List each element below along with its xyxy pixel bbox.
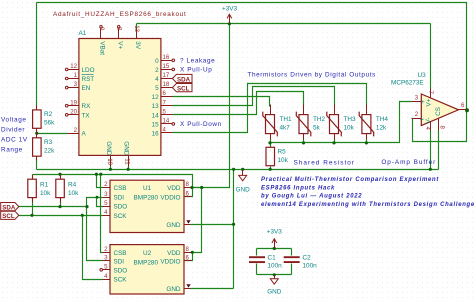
svg-text:8: 8 xyxy=(438,126,445,130)
svg-text:CS: CS xyxy=(435,107,442,116)
svg-text:TX: TX xyxy=(82,112,91,119)
svg-text:V+: V+ xyxy=(116,41,123,49)
svg-text:SDA: SDA xyxy=(177,76,191,83)
svg-text:SCK: SCK xyxy=(114,213,128,220)
svg-text:Adafruit_HUZZAH_ESP8266_breako: Adafruit_HUZZAH_ESP8266_breakout xyxy=(53,11,187,18)
A1 pin LDO 12 xyxy=(65,63,94,74)
svg-text:16: 16 xyxy=(163,54,170,61)
A1 pin 0 16 xyxy=(155,54,174,65)
svg-text:ESP8266 Inputs Hack: ESP8266 Inputs Hack xyxy=(261,185,335,191)
op-amp U3 MCP6273E xyxy=(391,72,459,126)
wire R3 bottom to GND rail xyxy=(36,159,38,170)
svg-text:TH4: TH4 xyxy=(376,116,389,123)
wire output-net top xyxy=(37,3,467,142)
svg-text:VDD: VDD xyxy=(167,185,181,192)
wire pin12 to TH4 xyxy=(173,84,367,133)
svg-text:? Leakage: ? Leakage xyxy=(180,58,215,65)
U3 pin 6 out xyxy=(459,102,467,110)
wire R1 bottom to SCL xyxy=(32,198,34,216)
wire C2 stubs xyxy=(291,249,293,256)
svg-text:VDDIO: VDDIO xyxy=(160,259,180,266)
svg-text:3V: 3V xyxy=(134,41,141,50)
wire 3V3 feed drop xyxy=(193,24,230,188)
svg-text:16: 16 xyxy=(152,131,160,138)
svg-text:Range: Range xyxy=(1,147,23,154)
svg-text:BMP280: BMP280 xyxy=(134,195,159,202)
svg-text:TH1: TH1 xyxy=(280,116,293,123)
svg-text:56k: 56k xyxy=(44,119,55,126)
wire 3V3 top rail xyxy=(137,23,431,25)
junction GND rail riser xyxy=(232,168,235,171)
U1 pin SDI 3 xyxy=(103,191,125,202)
U3 pin 7 V+ xyxy=(427,89,434,99)
U3 pin 8 CS xyxy=(438,119,445,131)
junction GND rail symbol xyxy=(241,168,244,171)
junction thermistor rail TH1 xyxy=(268,141,271,144)
note title block xyxy=(261,177,474,208)
svg-text:GND: GND xyxy=(267,289,282,296)
A1 pin GND 10 xyxy=(105,141,113,166)
power GND mid xyxy=(236,170,251,194)
svg-text:10k: 10k xyxy=(278,157,289,164)
svg-text:100n: 100n xyxy=(303,262,318,269)
wire GND riser xyxy=(233,170,235,289)
wire R1 top stub xyxy=(32,175,34,180)
svg-text:5: 5 xyxy=(155,85,159,92)
svg-text:12k: 12k xyxy=(376,125,387,132)
svg-text:20: 20 xyxy=(70,108,77,115)
svg-text:X Pull-Up: X Pull-Up xyxy=(180,67,212,74)
wire R5 top stub xyxy=(270,143,272,148)
svg-text:SDA: SDA xyxy=(2,204,16,211)
svg-text:17: 17 xyxy=(163,72,170,79)
junction SCL bus R1 xyxy=(30,214,33,217)
svg-text:19: 19 xyxy=(70,99,77,106)
ic A1 body xyxy=(53,11,187,155)
wire 3V3 lower rail xyxy=(33,175,193,188)
A1 pin TX 20 xyxy=(65,108,90,119)
wire U2 GND to riser xyxy=(191,288,234,290)
svg-text:R1: R1 xyxy=(40,182,49,189)
junction U1 SDI/SDO node xyxy=(96,196,99,199)
svg-text:12: 12 xyxy=(70,63,77,70)
svg-text:18: 18 xyxy=(163,81,170,88)
A1 pin RST 1 xyxy=(65,72,94,83)
wire R5 bottom stub xyxy=(270,167,272,170)
svg-text:LDO: LDO xyxy=(82,67,95,74)
svg-text:GND: GND xyxy=(123,141,130,156)
svg-text:VBat: VBat xyxy=(99,41,106,55)
wire pin13 up xyxy=(136,24,138,30)
svg-text:GND: GND xyxy=(105,141,112,156)
thermistor TH4 12k xyxy=(359,105,388,140)
svg-text:ADC 1V: ADC 1V xyxy=(1,137,28,144)
wire opamp V+ drop xyxy=(430,24,432,89)
svg-text:by Gough Lui — August 2022: by Gough Lui — August 2022 xyxy=(261,194,362,200)
ic U1 body xyxy=(110,180,184,232)
svg-text:5k: 5k xyxy=(313,125,321,132)
resistor R2 56k xyxy=(33,106,56,134)
svg-text:SDO: SDO xyxy=(114,204,128,211)
wire pin13 to TH3 xyxy=(173,87,335,107)
junction cap rail GND xyxy=(273,273,276,276)
junction GND rail op-amp V- xyxy=(429,168,432,171)
A1 pin 16 4 xyxy=(152,127,173,138)
svg-text:RST: RST xyxy=(82,76,95,83)
junction GND rail pin10 xyxy=(109,168,112,171)
svg-text:TH2: TH2 xyxy=(313,116,326,123)
U1 pin VDD 8 xyxy=(167,181,191,192)
U2 pin VDD 8 xyxy=(167,246,191,257)
capacitor C2 100n xyxy=(284,254,317,269)
svg-text:C2: C2 xyxy=(303,254,312,261)
junction GND rail R5 xyxy=(269,168,272,171)
svg-text:4k7: 4k7 xyxy=(280,125,291,132)
wire TH2 bottom stub xyxy=(303,139,305,143)
junction GND rail pin11 xyxy=(127,168,130,171)
resistor R3 22k xyxy=(33,134,56,161)
junction thermistor rail TH4 xyxy=(365,141,368,144)
svg-text:R5: R5 xyxy=(278,149,287,156)
svg-text:BMP280: BMP280 xyxy=(134,259,159,266)
svg-text:TH3: TH3 xyxy=(344,116,357,123)
svg-text:R2: R2 xyxy=(44,111,53,118)
svg-text:11: 11 xyxy=(124,158,131,165)
svg-text:Voltage: Voltage xyxy=(1,117,27,124)
A1 pin 12 6 xyxy=(152,90,173,101)
A1 pin RX 19 xyxy=(65,99,91,110)
A1 pin VBat 9 xyxy=(98,26,106,56)
A1 pin GND 11 xyxy=(123,141,131,166)
U1 pin CSB 2 xyxy=(103,181,127,192)
ic U2 body xyxy=(110,245,184,294)
junction thermistor rail TH2 xyxy=(302,141,305,144)
svg-text:C1: C1 xyxy=(268,254,277,261)
svg-text:VDD: VDD xyxy=(167,250,181,257)
svg-text:MCP6273E: MCP6273E xyxy=(391,80,424,87)
svg-text:9: 9 xyxy=(98,27,105,31)
wire U2 CSB drop xyxy=(101,175,103,253)
wire U2 VDD feed xyxy=(192,188,202,253)
svg-text:14: 14 xyxy=(163,118,170,125)
junction op-amp output node xyxy=(465,108,469,112)
wire A1 GND pin11 xyxy=(128,159,130,170)
svg-text:+3V3: +3V3 xyxy=(267,229,282,236)
wire TH3 bottom stub xyxy=(334,139,336,143)
wire C1 stubs xyxy=(256,249,258,256)
wire opamp V- to rail xyxy=(430,131,432,170)
svg-text:13: 13 xyxy=(152,103,160,110)
A1 pin 13 7 xyxy=(152,99,173,110)
wire pin16 to TH1 xyxy=(173,97,270,107)
svg-text:U2: U2 xyxy=(143,250,152,257)
junction U1 VDD node xyxy=(190,186,193,189)
global label SCL left xyxy=(1,211,19,220)
wire SDA bus xyxy=(19,206,87,208)
svg-text:Op-Amp Buffer: Op-Amp Buffer xyxy=(381,159,436,166)
junction 3V3 rail U2 CSB xyxy=(99,173,102,176)
svg-text:Shared Resistor: Shared Resistor xyxy=(294,160,356,167)
resistor R4 10k xyxy=(56,175,79,203)
junction 3V3 rail R4 xyxy=(58,173,61,176)
wire U1 CSB drop xyxy=(97,175,103,188)
U3 pin 2 - xyxy=(412,111,422,119)
junction 3V3 rail U1 CSB xyxy=(95,173,98,176)
svg-text:SCK: SCK xyxy=(114,277,128,284)
capacitor C1 100n xyxy=(249,254,282,269)
wire SDA to U1 SDI xyxy=(87,198,103,207)
svg-text:13: 13 xyxy=(133,25,140,32)
junction thermistor rail TH3 xyxy=(332,141,335,144)
junction U1 VDD feed node xyxy=(200,186,203,189)
svg-text:A1: A1 xyxy=(79,30,87,37)
power +3V3 caps xyxy=(267,229,282,249)
U2 pin SDO 5 xyxy=(100,263,127,274)
svg-text:10k: 10k xyxy=(40,190,51,197)
svg-text:VDDIO: VDDIO xyxy=(160,195,180,202)
resistor R5 10k shared xyxy=(266,147,289,165)
svg-text:2: 2 xyxy=(155,67,159,74)
svg-text:0: 0 xyxy=(155,58,159,65)
junction U1 GND riser xyxy=(232,223,235,226)
wire TH4 bottom stub xyxy=(366,139,368,143)
wire U2 VDDIO joint xyxy=(185,253,193,261)
U2 pin SCK 4 xyxy=(103,273,128,284)
thermistor TH3 10k xyxy=(327,105,356,140)
note voltage divider xyxy=(1,117,28,154)
U2 pin CSB 2 xyxy=(103,246,127,257)
svg-text:2: 2 xyxy=(415,111,419,118)
svg-text:4: 4 xyxy=(155,76,159,83)
junction divider mid node xyxy=(35,132,38,135)
svg-text:100n: 100n xyxy=(268,262,283,269)
U1 pin GND 1 xyxy=(166,220,190,229)
svg-text:element14 Experimenting with T: element14 Experimenting with Thermistors… xyxy=(261,202,474,208)
svg-text:Divider: Divider xyxy=(1,127,25,134)
wire U1 VDD stub joint xyxy=(191,187,202,189)
svg-text:4: 4 xyxy=(424,127,431,131)
svg-text:EN: EN xyxy=(82,85,91,92)
svg-text:14: 14 xyxy=(152,112,160,119)
junction +3V3 top rail xyxy=(228,22,231,25)
wire SDA to U2 SDI xyxy=(87,207,103,261)
A1 pin 2 15 xyxy=(155,63,174,74)
A1 pin 3V 13 xyxy=(133,25,141,50)
svg-text:SDO: SDO xyxy=(114,267,128,274)
wire R4 bottom to SDA xyxy=(60,198,62,207)
wire SCL to U2 SCK xyxy=(83,216,103,280)
wire R2 top drop xyxy=(36,3,38,107)
thermistor TH1 4k7 xyxy=(263,105,292,140)
svg-text:CSB: CSB xyxy=(114,250,127,257)
wire pin14 to TH2 xyxy=(173,92,304,115)
svg-text:U3: U3 xyxy=(418,72,427,79)
svg-text:SDI: SDI xyxy=(114,259,125,266)
U2 pin GND 1 xyxy=(166,284,190,293)
svg-text:Thermistors Driven by Digital: Thermistors Driven by Digital Outputs xyxy=(248,72,376,79)
wire R4 top stub xyxy=(60,175,62,180)
svg-text:10k: 10k xyxy=(344,125,355,132)
wire divider mid to pin A xyxy=(36,131,38,136)
wire opamp CS to rail xyxy=(438,131,440,170)
svg-text:R3: R3 xyxy=(44,139,53,146)
svg-text:10: 10 xyxy=(106,158,113,165)
wire U1 GND to riser xyxy=(191,224,234,226)
svg-text:GND: GND xyxy=(166,286,181,293)
junction cap rail +3V3 xyxy=(273,247,276,250)
wire U1 SDO link xyxy=(97,198,103,207)
svg-text:RX: RX xyxy=(82,103,92,110)
svg-text:22k: 22k xyxy=(44,147,55,154)
U1 pin SDO 5 xyxy=(103,200,128,211)
U3 pin 4 V- xyxy=(424,122,431,131)
wire cap top rail xyxy=(257,248,292,250)
A1 pin 15 14 xyxy=(152,118,175,129)
svg-text:+3V3: +3V3 xyxy=(222,6,237,13)
svg-text:15: 15 xyxy=(163,63,170,70)
svg-text:CSB: CSB xyxy=(114,185,127,192)
wire thermistor bottom rail to opamp in+ xyxy=(271,102,412,143)
U2 pin SDI 3 xyxy=(103,255,125,266)
U1 pin VDDIO 6 xyxy=(160,191,191,202)
A1 pin 4 17 / SDA label xyxy=(155,72,192,83)
A1 pin V+ 8 xyxy=(116,26,124,50)
svg-text:R4: R4 xyxy=(68,182,77,189)
svg-text:SDI: SDI xyxy=(114,195,125,202)
svg-text:V+: V+ xyxy=(425,98,432,106)
wire GND rail xyxy=(37,169,439,171)
U3 pin 3 + xyxy=(412,95,422,102)
thermistor TH2 5k xyxy=(296,105,325,140)
U2 pin VDDIO 6 xyxy=(160,255,191,266)
A1 pin 5 18 / SCL label xyxy=(155,81,192,92)
A1 pin A 2 xyxy=(68,127,87,138)
junction SDA bus R4 xyxy=(58,205,61,208)
wire TH1 bottom stub xyxy=(270,139,272,143)
global label SDA left xyxy=(1,203,19,212)
U1 pin SCK 4 xyxy=(103,209,128,220)
svg-text:SCL: SCL xyxy=(2,213,15,220)
A1 pin 14 5 xyxy=(152,108,173,119)
svg-text:SCL: SCL xyxy=(177,86,190,93)
junction SDA bus node xyxy=(85,205,88,208)
svg-text:7: 7 xyxy=(427,91,434,95)
junction SCL bus node xyxy=(81,214,84,217)
svg-text:GND: GND xyxy=(166,222,181,229)
wire cap bottom rail xyxy=(257,274,292,276)
power GND caps xyxy=(267,275,282,296)
resistor R1 10k xyxy=(28,175,51,203)
svg-text:X Pull-Down: X Pull-Down xyxy=(180,121,222,128)
svg-text:3: 3 xyxy=(415,95,419,102)
svg-text:Practical Multi-Thermistor Com: Practical Multi-Thermistor Comparison Ex… xyxy=(261,177,439,183)
wire SCL bus xyxy=(19,215,103,217)
svg-text:15: 15 xyxy=(152,121,160,128)
wire U1 VDDIO joint xyxy=(185,188,193,197)
svg-text:GND: GND xyxy=(236,187,251,194)
A1 pin EN 3 xyxy=(65,81,90,92)
svg-text:U1: U1 xyxy=(143,185,152,192)
svg-text:10k: 10k xyxy=(68,190,79,197)
power +3V3 top xyxy=(222,6,237,24)
svg-text:12: 12 xyxy=(152,94,160,101)
junction U2 VDD node xyxy=(191,251,194,254)
wire A1 GND pin10 xyxy=(110,159,112,170)
